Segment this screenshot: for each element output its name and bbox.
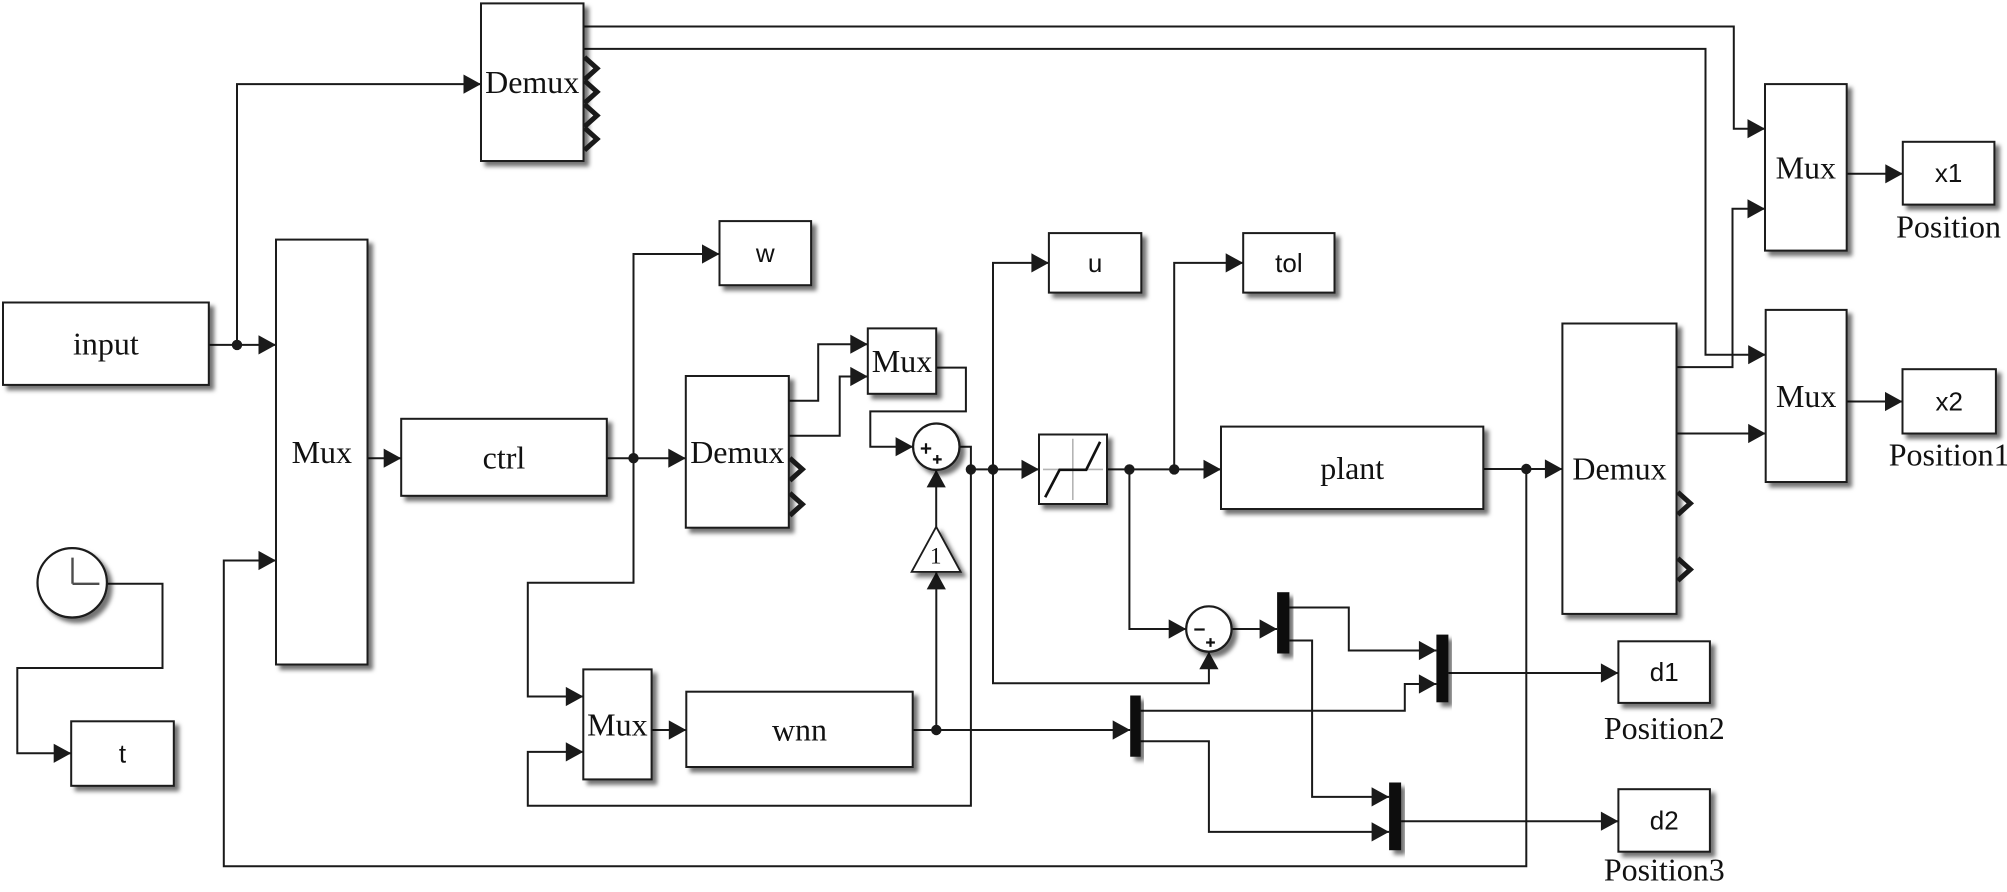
wire ctrl to Demux2 — [607, 457, 686, 459]
svg-text:Demux: Demux — [690, 434, 784, 470]
scope d2 — [1618, 789, 1710, 852]
wire Mux to ctrl — [367, 457, 401, 459]
mux U8 (x2) — [1766, 310, 1847, 482]
node sum1 out B — [988, 464, 998, 474]
mux U4 (small) — [868, 328, 936, 393]
svg-text:Demux: Demux — [485, 64, 579, 100]
unconnected port of top Demux — [585, 104, 598, 126]
scope d1 — [1618, 641, 1710, 703]
wire Mux x1 to x1 scope — [1847, 173, 1903, 175]
demux U3 (middle) — [686, 376, 789, 528]
wire wnn to selector bar — [913, 729, 1130, 731]
block input — [3, 303, 209, 385]
gain G1 (1) — [912, 527, 961, 572]
svg-text:input: input — [73, 326, 139, 362]
wire Demux3 out1 to Mux x1 in2 — [1677, 209, 1766, 367]
scope tol — [1243, 233, 1334, 293]
scope w — [720, 221, 812, 285]
unconnected port of right Demux — [1678, 558, 1691, 580]
svg-text:x2: x2 — [1935, 386, 1962, 416]
wire bar A out1 to bar B in1 — [1289, 608, 1436, 651]
sum S1 (+ +) — [913, 424, 959, 470]
node sum1 out A — [966, 464, 976, 474]
wire Demux2 out2 to Mux2 in2 — [789, 377, 868, 436]
wire gain to sum1 — [935, 470, 937, 527]
mux U7 (x1) — [1765, 84, 1847, 251]
wire bar mid out2 to bar C in2 — [1141, 741, 1389, 832]
block wnn — [686, 692, 912, 767]
wire plant feedback to Mux-main in2 — [224, 469, 1527, 866]
wire bar mid out1 to bar B in2 — [1141, 684, 1437, 711]
wire sum1 to saturation — [960, 447, 1040, 470]
svg-text:wnn: wnn — [772, 711, 827, 747]
node sat out B — [1169, 464, 1179, 474]
svg-text:Mux: Mux — [1776, 149, 1836, 185]
scope x1 — [1903, 142, 1995, 205]
wire ctrl branch to Mux-wnn in1 — [528, 458, 634, 696]
wire sum2 to bar A — [1232, 628, 1278, 630]
svg-text:ctrl: ctrl — [483, 439, 526, 475]
node sat out A — [1124, 464, 1134, 474]
svg-text:Position: Position — [1896, 209, 2001, 245]
mux U5 (wnn input) — [583, 669, 651, 779]
scope u — [1049, 233, 1141, 293]
svg-text:1: 1 — [930, 544, 942, 569]
unconnected port of middle Demux — [790, 493, 803, 515]
node input branch — [232, 340, 242, 350]
svg-text:x1: x1 — [1935, 158, 1962, 188]
wire branch to sum2 minus input — [1129, 469, 1186, 629]
scope x2 — [1903, 369, 1996, 433]
svg-text:Mux: Mux — [1776, 378, 1836, 414]
unconnected port of top Demux — [585, 81, 598, 103]
svg-text:Position2: Position2 — [1604, 710, 1725, 746]
block plant — [1221, 427, 1483, 509]
svg-text:tol: tol — [1275, 248, 1302, 278]
unconnected port of right Demux — [1678, 492, 1691, 514]
wire Demux out2 to Mux x2 in1 — [584, 49, 1766, 355]
sum S2 (- +) — [1186, 606, 1231, 651]
wire Mux x2 to x2 scope — [1847, 401, 1903, 403]
wire input to Mux-main in1 — [209, 344, 276, 346]
svg-text:Mux: Mux — [292, 434, 352, 470]
wire bar A out2 to bar C in1 — [1289, 641, 1389, 797]
wire Demux out1 to Mux x1 in1 — [584, 27, 1766, 129]
demux U2 (top) — [481, 3, 584, 161]
svg-text:d2: d2 — [1650, 806, 1679, 836]
node plant out — [1521, 464, 1531, 474]
svg-text:Demux: Demux — [1572, 451, 1666, 487]
block t (to workspace) — [71, 721, 174, 786]
svg-text:Mux: Mux — [872, 343, 932, 379]
mux U1 (main) — [276, 240, 368, 665]
svg-text:Position1: Position1 — [1889, 437, 2007, 473]
saturation block — [1039, 435, 1107, 505]
mux bar C (to d2) — [1389, 783, 1401, 851]
wire Mux-wnn to wnn — [652, 729, 687, 731]
svg-text:d1: d1 — [1650, 657, 1679, 687]
node wnn out — [931, 725, 941, 735]
wire bar C to d2 scope — [1401, 820, 1618, 822]
unconnected port of top Demux — [585, 57, 598, 79]
clock block — [37, 548, 106, 617]
svg-text:Position3: Position3 — [1604, 852, 1725, 888]
mux bar B (to d1) — [1436, 635, 1448, 703]
demux U6 (right) — [1562, 324, 1676, 614]
wire branch to u scope — [993, 263, 1049, 470]
wire branch to sum2 plus input — [993, 469, 1209, 683]
wire clock to t — [17, 584, 162, 754]
unconnected port of top Demux — [585, 128, 598, 150]
wire Demux3 out2 to Mux x2 in2 — [1677, 433, 1766, 435]
svg-text:w: w — [755, 238, 775, 268]
selector bar mid (after wnn) — [1130, 696, 1141, 757]
wire bar B to d1 scope — [1448, 672, 1618, 674]
wire branch up to Demux — [237, 84, 481, 345]
wire Demux2 out1 to Mux2 in1 — [789, 344, 868, 401]
block ctrl — [401, 419, 607, 496]
unconnected port of middle Demux — [790, 458, 803, 480]
svg-text:plant: plant — [1320, 450, 1384, 486]
wire feedback to Mux-wnn in2 — [528, 469, 971, 805]
wire plant to Demux3 — [1483, 468, 1562, 470]
wire Mux2 to sum1 — [870, 368, 966, 447]
wire wnn branch to gain — [935, 572, 937, 730]
wire ctrl branch to w scope — [634, 254, 720, 458]
wire branch to tol scope — [1174, 263, 1243, 470]
wire saturation to plant — [1107, 468, 1221, 470]
svg-text:Mux: Mux — [587, 706, 647, 742]
svg-text:u: u — [1088, 248, 1102, 278]
node ctrl output — [628, 453, 638, 463]
svg-text:t: t — [119, 739, 127, 769]
selector bar A (after sum S2) — [1277, 592, 1289, 653]
